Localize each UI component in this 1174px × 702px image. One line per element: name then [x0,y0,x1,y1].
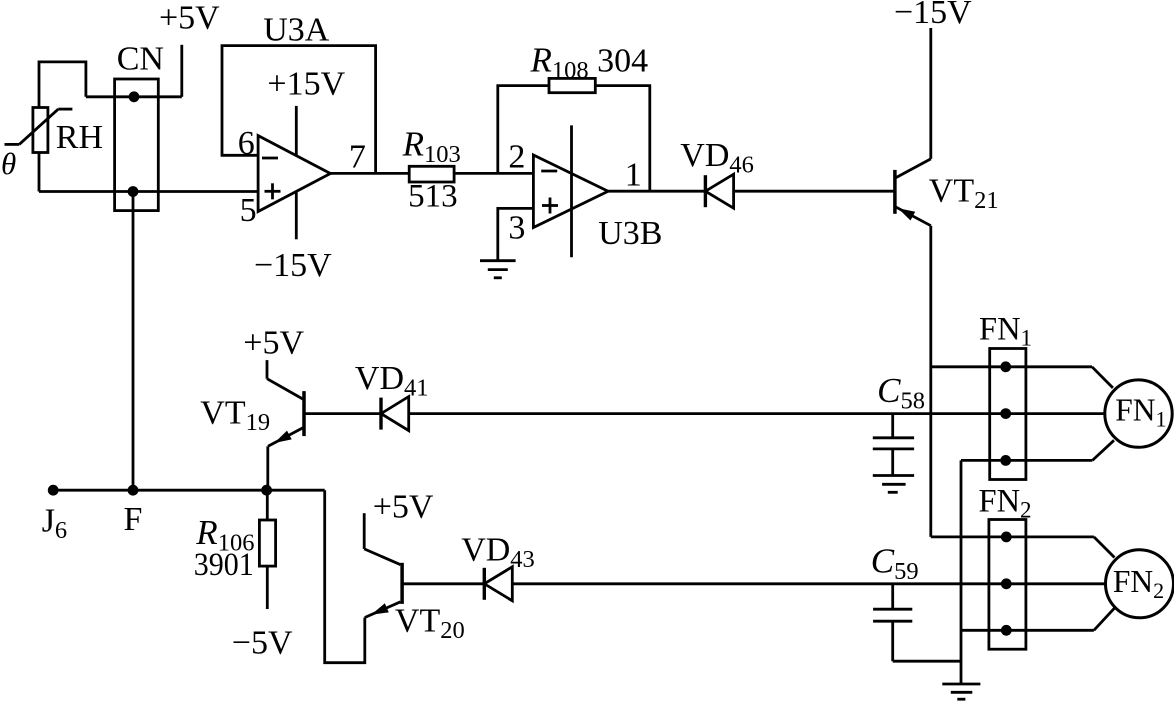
junction dot node [261,485,272,496]
resistor R108 [549,78,595,92]
svg-text:+5V: +5V [159,0,220,37]
wire FN1 pin3 row [961,459,1092,462]
wire branch to FN1 pin1 [931,365,1092,368]
transistor VT20 [364,549,402,618]
transistor VT21 [895,159,931,226]
wire node to VT20 emitter [325,490,365,663]
svg-text:−5V: −5V [232,625,293,662]
wire main bottom rail [53,489,325,492]
svg-text:−15V: −15V [894,0,972,31]
svg-text:513: 513 [408,179,458,215]
svg-text:C59: C59 [871,541,919,585]
transistor VT19 [267,379,304,447]
svg-text:U3A: U3A [263,11,330,48]
wire diagonal FN1 bottom [1092,440,1114,460]
diode VD43 [484,567,512,601]
wire VT19 collector stub [266,360,269,379]
wire U3A -15V supply [295,191,298,239]
svg-text:VD43: VD43 [461,532,535,574]
connector CN [115,79,159,211]
wire U3B output [608,190,705,193]
thermistor RH [5,108,73,153]
capacitor C58 [873,414,914,476]
diode VD41 [381,397,409,431]
wire U3A output [330,172,409,175]
svg-text:−15V: −15V [254,247,332,284]
svg-text:2: 2 [508,139,525,176]
capacitor C59 [873,584,912,661]
wire ground rail FN [960,460,963,684]
wire branch to FN2 pin1 [931,536,1094,539]
wire C59 to ground rail [893,660,961,663]
wire main input to U3A [39,190,258,193]
svg-text:+5V: +5V [373,489,434,526]
diode VD46 [705,174,733,208]
svg-text:7: 7 [349,139,366,176]
svg-text:R108 304: R108 304 [530,41,649,85]
svg-text:6: 6 [238,125,255,162]
svg-text:3901: 3901 [194,547,254,583]
op-amp U3A [258,136,330,212]
wire VT19 base segment [304,412,381,415]
svg-text:FN2: FN2 [979,484,1032,523]
svg-text:C58: C58 [877,371,925,415]
wire VT21 emitter down [929,226,932,537]
wire VT19 emitter down [266,446,269,490]
svg-text:5: 5 [240,192,257,229]
ground C58 [873,476,914,493]
junction dot FN2 pin1 [1001,532,1012,543]
wire U3A feedback loop [222,46,376,174]
svg-text:+15V: +15V [267,66,345,103]
wire diagonal FN2 top [1094,537,1115,558]
wire VT20 base segment [402,582,484,585]
junction dot FN1 pin2 [1000,408,1011,419]
svg-text:VT20: VT20 [395,603,465,645]
svg-text:VT21: VT21 [929,173,999,215]
wire VD41 to FN1 pin2 [409,412,1105,415]
junction dot FN1 pin1 [1000,361,1011,372]
wire CN down to F [132,192,135,491]
wire RH bottom [38,153,41,192]
wire VT21 collector to -15V [929,28,932,159]
junction dot FN1 pin3 [1000,455,1011,466]
svg-text:+5V: +5V [243,325,304,362]
junction dot CN pin1 [129,91,140,102]
wire U3B plus input [498,208,534,260]
junction dot J6 [48,485,59,496]
ground U3B pin3 [480,261,516,278]
svg-text:F: F [124,501,143,538]
svg-text:1: 1 [625,157,642,194]
wire CN top row [86,95,182,98]
wire U3B power line [570,125,573,257]
connector FN2 [989,520,1026,650]
fan FN2 [1106,550,1174,618]
junction dot CN pin2 [128,186,139,197]
wire RH top bend [39,62,86,108]
op-amp U3B [533,155,608,228]
wire VD43 to FN2 pin2 [512,582,1105,585]
svg-text:3: 3 [508,210,525,247]
svg-text:FN1: FN1 [979,312,1032,351]
resistor R106 [259,490,275,609]
wire U3B feedback loop [498,86,650,192]
wire diagonal FN2 bottom [1094,608,1115,630]
wire +5V stub [180,45,183,97]
wire R103 to U3B [454,172,533,175]
wire diagonal FN1 top [1092,367,1113,388]
svg-text:θ: θ [1,146,16,181]
fan FN1 [1105,380,1172,447]
svg-text:VD46: VD46 [680,137,754,179]
svg-text:FN1: FN1 [1115,393,1166,432]
wire VD46 to VT21 base [734,190,895,193]
junction dot FN2 pin2 [1001,578,1012,589]
svg-text:FN2: FN2 [1113,564,1164,603]
wire VT20 collector stub [363,513,366,549]
junction dot F [128,485,139,496]
svg-text:J6: J6 [42,503,67,545]
connector FN1 [990,349,1026,480]
svg-text:R103: R103 [402,125,461,169]
wire FN2 pin3 branch [961,629,1094,632]
resistor R103 [409,166,454,182]
svg-text:CN: CN [117,41,164,78]
junction dot FN2 pin3 [1001,625,1012,636]
svg-text:RH: RH [56,119,103,156]
ground FN [942,684,980,699]
svg-text:U3B: U3B [598,215,662,252]
svg-text:VT19: VT19 [200,395,270,437]
svg-text:VD41: VD41 [355,360,429,402]
wire U3A +15V supply [295,106,298,156]
